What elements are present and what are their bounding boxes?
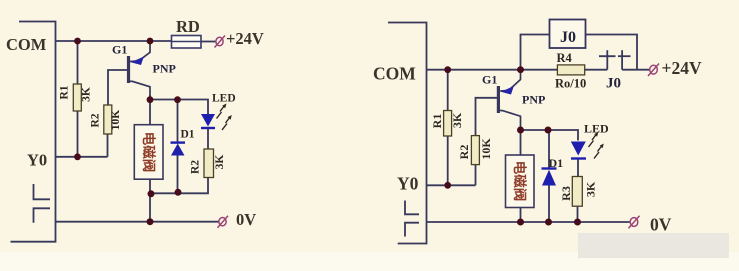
svg-text:3K: 3K <box>584 181 598 197</box>
svg-text:R1: R1 <box>59 85 71 99</box>
svg-text:Y0: Y0 <box>397 174 419 194</box>
wire R2-10K to Y0 <box>107 134 109 157</box>
svg-text:J0: J0 <box>606 76 621 92</box>
LED arrows <box>217 106 231 131</box>
right rail bracket <box>388 23 427 244</box>
wire R1 vertical <box>77 41 79 157</box>
resistor R1 <box>73 84 81 111</box>
svg-text:R2: R2 <box>90 113 102 127</box>
svg-text:R2: R2 <box>457 145 471 160</box>
wire COM line <box>56 40 172 42</box>
fuse RD <box>172 36 202 49</box>
LED diode <box>201 114 215 127</box>
wire D1 branch right <box>548 130 550 168</box>
svg-text:R3: R3 <box>559 186 573 201</box>
svg-text:LED: LED <box>584 122 609 136</box>
svg-text:D1: D1 <box>549 156 564 170</box>
wire LED to R3 right <box>577 159 579 177</box>
wire R2-10K to Y0 right <box>475 165 477 186</box>
wire R3 bottom <box>577 206 579 222</box>
wire solenoid bottom <box>149 179 151 221</box>
ground tap +24V left <box>215 36 226 48</box>
wire J0 coil loop <box>521 35 550 70</box>
relay coil J0 box <box>550 20 586 49</box>
wire fuse to +24V <box>201 41 216 43</box>
svg-text:LED: LED <box>212 93 236 105</box>
svg-text:3K: 3K <box>450 112 464 128</box>
wire Y0 line <box>56 156 108 158</box>
emitter arrow head <box>131 57 144 65</box>
left rail bracket <box>11 22 56 242</box>
ground tap 0V right <box>629 216 640 229</box>
watermark gray patch <box>0 252 739 271</box>
svg-text:R2: R2 <box>190 160 202 174</box>
svg-text:0V: 0V <box>236 210 256 229</box>
svg-text:10K: 10K <box>110 110 122 131</box>
wire collector link line top <box>150 100 208 115</box>
LED right <box>571 142 586 156</box>
resistor R3 right <box>572 177 582 207</box>
diode D1 <box>171 141 186 143</box>
LED arrows right <box>589 134 603 159</box>
wire 0V line <box>56 221 220 223</box>
svg-text:3K: 3K <box>81 87 93 102</box>
solenoid box 电磁阀 <box>134 125 163 180</box>
svg-text:PNP: PNP <box>153 62 176 76</box>
svg-text:Y0: Y0 <box>27 151 47 170</box>
wire collector down <box>149 95 151 125</box>
svg-text:+24V: +24V <box>226 29 264 48</box>
svg-text:10K: 10K <box>479 138 493 160</box>
wire link line bottom <box>150 178 208 194</box>
svg-text:3K: 3K <box>214 155 226 170</box>
svg-text:R4: R4 <box>557 51 573 65</box>
svg-text:电磁阀: 电磁阀 <box>141 132 157 173</box>
svg-text:G1: G1 <box>482 73 497 87</box>
resistor R1 right <box>444 111 452 137</box>
svg-text:COM: COM <box>6 35 47 54</box>
svg-text:D1: D1 <box>181 129 195 141</box>
contact J0 bars <box>606 50 608 69</box>
svg-text:+24V: +24V <box>662 58 702 78</box>
resistor R2 10K right <box>471 136 479 165</box>
svg-text:R1: R1 <box>430 114 444 129</box>
wire solenoid bottom right <box>520 208 522 223</box>
emitter arrow head right <box>501 86 514 94</box>
resistor R2 10K <box>104 105 112 134</box>
wire D1 branch <box>177 100 179 143</box>
pulse symbol left <box>34 184 51 199</box>
svg-text:G1: G1 <box>112 43 127 57</box>
svg-text:0V: 0V <box>650 215 672 235</box>
svg-text:J0: J0 <box>560 29 576 46</box>
svg-text:电磁阀: 电磁阀 <box>512 161 528 202</box>
ground tap 0V left <box>218 216 229 228</box>
wire R4 row <box>521 69 558 71</box>
wire base lead <box>108 70 129 105</box>
transistor Q G1 <box>129 41 151 99</box>
junction dots right <box>444 66 581 225</box>
wire COM line right <box>427 69 521 71</box>
wire base lead right <box>476 98 499 136</box>
pulse symbol right <box>405 201 419 215</box>
wire Y0 line right <box>427 184 476 186</box>
svg-text:Ro/10: Ro/10 <box>555 77 586 91</box>
junction dots left <box>74 38 181 226</box>
svg-text:RD: RD <box>176 17 200 36</box>
resistor R2 3K <box>204 149 214 178</box>
solenoid box right 电磁阀 <box>506 155 535 208</box>
wire R1 vertical right <box>447 70 449 186</box>
resistor R4 <box>557 65 584 75</box>
ground tap +24V right <box>648 64 659 77</box>
transistor Q G1 right <box>498 70 520 129</box>
svg-text:COM: COM <box>373 64 416 84</box>
wire LED to R2 <box>207 128 209 149</box>
wire 0V line right <box>427 221 630 223</box>
diode D1 right <box>542 167 557 169</box>
wire collector link right <box>520 126 522 155</box>
svg-text:PNP: PNP <box>522 93 545 107</box>
